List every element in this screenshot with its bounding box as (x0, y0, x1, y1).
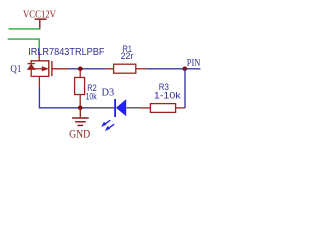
pin anode (126, 107, 140, 109)
drain stub (31, 60, 49, 62)
junction gate node (78, 67, 83, 72)
svg-text:1-10k: 1-10k (154, 91, 181, 101)
wire green lower (8, 39, 40, 52)
body diode triangle (28, 64, 35, 69)
svg-text:D3: D3 (102, 86, 115, 98)
svg-text:IRLR7843TRLPBF: IRLR7843TRLPBF (28, 47, 104, 58)
source stub (31, 75, 49, 77)
svg-text:GND: GND (69, 129, 90, 141)
svg-text:Q1: Q1 (10, 64, 21, 75)
emission arrow lower (105, 124, 114, 130)
LED D3 (92, 99, 141, 131)
power VCC12V (23, 10, 56, 29)
pin gate (52, 68, 68, 70)
resistor R2 (75, 69, 85, 108)
bulk line with arrow (31, 68, 42, 70)
resistor R1 (106, 64, 147, 73)
svg-text:10k: 10k (86, 92, 97, 102)
transistor Q1 (28, 52, 69, 88)
wire source down and bottom rail (39, 87, 91, 108)
svg-text:PIN: PIN (187, 58, 201, 69)
wire R3 up to PIN (184, 69, 186, 108)
junction PIN node (183, 67, 188, 72)
ground (69, 108, 90, 141)
wire gate to junction (68, 68, 105, 70)
source-drain left vertical (30, 60, 32, 77)
channel bar (48, 60, 50, 77)
body diode bar (28, 63, 35, 65)
svg-text:22r: 22r (121, 51, 134, 61)
pin cathode (92, 107, 115, 109)
wire green top (9, 28, 41, 30)
emission arrow upper (102, 120, 111, 126)
pin drain (38, 52, 40, 61)
junction ground node (78, 106, 83, 111)
triangle (116, 99, 126, 116)
pin source (38, 76, 40, 87)
resistor R3 (141, 104, 186, 113)
wire R1 to PIN (146, 68, 200, 70)
cathode bar (114, 99, 116, 117)
gate bar (51, 61, 53, 76)
